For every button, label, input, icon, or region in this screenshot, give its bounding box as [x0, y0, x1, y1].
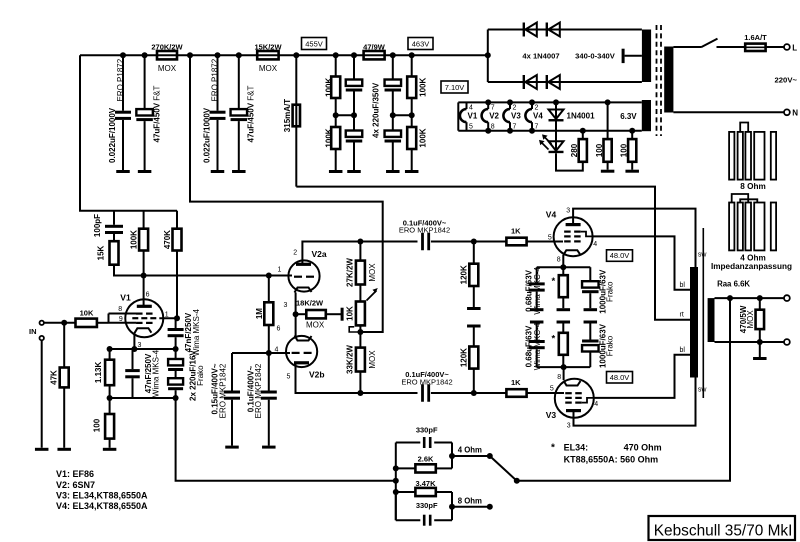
- wire V2b grid: [269, 352, 290, 354]
- node selector pole: [514, 478, 520, 484]
- svg-text:MOX: MOX: [368, 263, 377, 282]
- svg-text:ERO MKP1842: ERO MKP1842: [399, 226, 450, 235]
- resistor 100K (V1 plate load): [143, 211, 145, 229]
- svg-text:V3: V3: [546, 410, 557, 420]
- resistor * cathode (V3): [559, 333, 568, 355]
- wire 8 Ohm tap to contact: [452, 506, 490, 508]
- wire feedback return from V1 cathode: [176, 398, 396, 481]
- resistor 280: [582, 131, 584, 139]
- svg-text:100pF: 100pF: [93, 214, 102, 237]
- node 470 ohm bottom: [757, 339, 763, 345]
- svg-text:Raa 6.6K: Raa 6.6K: [717, 279, 750, 288]
- svg-text:3.47K: 3.47K: [415, 479, 436, 488]
- ground (100 lower): [631, 162, 633, 170]
- wire V4 cathode lead: [562, 255, 564, 267]
- svg-text:rt: rt: [680, 312, 684, 319]
- diode D4 1N4007 (bottom right): [546, 75, 548, 89]
- wire B+ feed to V2 stage: [190, 55, 383, 332]
- node V1 anode: [141, 273, 147, 279]
- node pot/33K junction (B+ feed): [357, 329, 363, 335]
- wire V4 screen to OPT (bl top): [592, 236, 690, 289]
- resistor 100 (heater balance upper): [607, 102, 609, 139]
- resistor 100K (bank B lower): [407, 127, 416, 149]
- resistor 470K (V1 screen feed): [176, 211, 178, 229]
- wire V2a anode: [302, 242, 360, 265]
- LED pilot lamp: [555, 141, 557, 152]
- svg-text:3: 3: [566, 207, 570, 214]
- capacitor 0.68uF/63V Wima MKC-4 (V4): [536, 267, 538, 282]
- svg-text:48.0V: 48.0V: [610, 373, 630, 382]
- resistor 1M (V2b grid leak): [268, 276, 270, 303]
- capacitor 47uF/450V F&T (second): [238, 55, 240, 109]
- ground (first 0.022uF): [116, 170, 130, 173]
- transformer 6.3V heater winding: [642, 100, 651, 131]
- tube V2a 6SN7 (triode 1): [288, 260, 319, 291]
- svg-text:MOX: MOX: [158, 64, 177, 73]
- node rail junction x392: [390, 52, 396, 58]
- svg-text:1K: 1K: [511, 227, 521, 236]
- svg-text:18K/2W: 18K/2W: [296, 298, 324, 307]
- svg-text:Frako: Frako: [605, 335, 614, 356]
- svg-text:47/9W: 47/9W: [363, 42, 386, 51]
- svg-text:5: 5: [548, 235, 552, 242]
- wire secondary bottom: [715, 341, 784, 343]
- svg-text:MOX: MOX: [259, 64, 278, 73]
- wire V1 cathode rail: [110, 348, 176, 350]
- resistor 120K (V3 grid leak): [469, 347, 478, 369]
- wire 10K to V1 grid: [98, 322, 109, 324]
- svg-text:6.3V: 6.3V: [620, 112, 637, 121]
- svg-text:100K: 100K: [419, 78, 428, 97]
- svg-text:*: *: [552, 276, 556, 287]
- tube V3 heater (pins 2,7): [509, 102, 511, 109]
- wire V3 screen to OPT (bl bottom): [593, 355, 690, 398]
- svg-text:100: 100: [620, 143, 629, 157]
- node 120K lower: [471, 390, 477, 396]
- svg-text:6: 6: [277, 325, 281, 332]
- svg-text:V2: 6SN7: V2: 6SN7: [56, 480, 95, 490]
- ground (0.68uF V4): [530, 308, 544, 311]
- svg-text:V1: V1: [120, 292, 131, 302]
- fuse 315mA/T: [295, 55, 297, 186]
- svg-text:330pF: 330pF: [416, 501, 438, 510]
- svg-text:15K: 15K: [96, 245, 105, 260]
- svg-text:4 Ohm: 4 Ohm: [458, 446, 482, 455]
- capacitor 220uF/350V (bank B lower): [385, 131, 402, 137]
- resistor 100 (V1 cathode to ground): [105, 414, 114, 439]
- svg-text:3: 3: [284, 302, 288, 309]
- node rail junction x238: [236, 52, 242, 58]
- wire IN bottom to ground: [41, 341, 43, 448]
- node rail junction x123: [120, 52, 126, 58]
- fuse 1.6A/T: [745, 44, 765, 51]
- wire bank B mid tie: [393, 114, 412, 116]
- wire V1 cathode bottom rail: [110, 397, 176, 399]
- wire V1 cathode lead: [133, 333, 135, 349]
- wire feedback from secondary to selector: [517, 298, 730, 481]
- wire V1 anode to V2a grid: [144, 275, 292, 277]
- svg-text:Frako: Frako: [196, 365, 205, 386]
- diode D3 1N4007 (bottom left): [488, 81, 642, 83]
- svg-text:100K: 100K: [324, 78, 333, 97]
- wire V3 cathode rail: [537, 366, 591, 368]
- svg-text:*: *: [552, 334, 556, 345]
- svg-text:L: L: [792, 43, 797, 52]
- wire V4 cathode rail: [537, 266, 591, 268]
- diode D2 1N4007 (top right): [546, 23, 548, 37]
- svg-text:270K/2W: 270K/2W: [151, 42, 183, 51]
- resistor 1K (V4 grid stopper): [506, 238, 526, 246]
- resistor 100K (bank A lower): [331, 127, 340, 149]
- svg-text:*: *: [551, 443, 555, 454]
- svg-text:1M: 1M: [255, 308, 264, 319]
- wire 8 Ohm loop right: [451, 492, 453, 520]
- svg-text:MOX: MOX: [746, 310, 755, 329]
- svg-text:315mA/T: 315mA/T: [283, 99, 292, 132]
- wire V2a anode run to coupling cap: [360, 241, 417, 243]
- ground (18K, bar style): [341, 308, 344, 321]
- ground (bank A cap chain): [347, 170, 361, 173]
- tube V1 heater (pins 4,5): [466, 102, 468, 109]
- wire V2b plate lead: [296, 363, 361, 393]
- wire 8 Ohm loop left: [395, 492, 397, 520]
- resistor * cathode (V4): [562, 267, 564, 275]
- svg-text:47uF/450V F&T: 47uF/450V F&T: [246, 85, 255, 142]
- svg-text:IN: IN: [29, 327, 37, 336]
- svg-text:3: 3: [138, 342, 142, 349]
- node V2 cathode junction: [293, 311, 299, 317]
- wire input to 10K: [44, 322, 75, 324]
- svg-text:5: 5: [287, 374, 291, 381]
- capacitor 0.1uF/400V~ ERO MKP1842 (grid bypass): [268, 353, 270, 391]
- wire heater top line: [458, 101, 642, 103]
- label 7.10V: [441, 81, 468, 93]
- svg-text:10K: 10K: [80, 308, 94, 317]
- svg-text:V2b: V2b: [309, 369, 325, 379]
- wire switch to fuse: [717, 46, 745, 48]
- ground (bank B resistor chain): [405, 170, 419, 173]
- wire bank A mid tie: [336, 114, 354, 116]
- svg-text:bl: bl: [680, 282, 686, 289]
- svg-text:V3: EL34,KT88,6550A: V3: EL34,KT88,6550A: [56, 490, 148, 500]
- ground (secondary): [759, 342, 761, 357]
- resistor 470/5W MOX (secondary load): [759, 298, 761, 310]
- capacitor 0.1uF/400V~ ERO MKP1842 (upper coupling): [421, 233, 424, 251]
- svg-text:8: 8: [118, 306, 122, 313]
- svg-text:0.022uF/1000V: 0.022uF/1000V: [108, 107, 117, 163]
- node V2b grid junction: [266, 350, 272, 356]
- wire B+ rail: [80, 54, 488, 56]
- resistor 2.6K (feedback 4 Ohm): [396, 467, 415, 469]
- svg-text:Wima MKC-4: Wima MKC-4: [533, 322, 542, 370]
- wire V2a cathode lead: [295, 293, 297, 315]
- svg-text:4x 220uF/350V: 4x 220uF/350V: [372, 82, 381, 138]
- svg-text:V4: V4: [546, 209, 557, 219]
- label 455V: [302, 38, 327, 50]
- diode D1 1N4007 (top left): [488, 29, 642, 31]
- wire bridge box left edge: [487, 30, 489, 83]
- ground (1000uF V4): [584, 308, 598, 311]
- wire V3 anode to OPT (sw bottom): [574, 378, 696, 426]
- svg-text:100K: 100K: [129, 230, 138, 249]
- svg-text:280: 280: [570, 143, 579, 157]
- svg-text:KT88,6550A: 560 Ohm: KT88,6550A: 560 Ohm: [564, 455, 659, 465]
- svg-text:8: 8: [557, 374, 561, 381]
- node bridge output: [485, 52, 491, 58]
- ground (100 upper): [607, 162, 609, 170]
- svg-text:455V: 455V: [305, 39, 323, 48]
- resistor 100K (bank A upper): [335, 55, 337, 76]
- tube V2b 6SN7 (triode 2): [286, 336, 317, 367]
- resistor 47/9W: [364, 51, 385, 59]
- wire V2b cathode lead: [295, 314, 297, 337]
- resistor 1.13K (V1 cathode): [109, 349, 111, 360]
- svg-text:4x 1N4007: 4x 1N4007: [522, 52, 559, 61]
- node V4 cathode: [560, 264, 566, 270]
- ground (120K lower, bar style): [467, 325, 481, 328]
- svg-text:8 Ohm: 8 Ohm: [740, 182, 765, 191]
- svg-text:4: 4: [594, 401, 598, 408]
- switch mains: [701, 39, 718, 48]
- svg-text:Impedanzanpassung: Impedanzanpassung: [711, 262, 792, 271]
- node secondary feedback tap: [727, 295, 733, 301]
- wire 1K to V3 grid: [527, 392, 564, 394]
- svg-text:100: 100: [595, 143, 604, 157]
- svg-text:N: N: [792, 109, 798, 118]
- ground (1000uF V3, bar above): [584, 321, 598, 324]
- svg-text:1N4001: 1N4001: [567, 112, 596, 121]
- ground (bank B cap chain): [386, 170, 400, 173]
- label 48.0V lower: [607, 372, 633, 384]
- tube V1 EF86: [125, 299, 163, 337]
- svg-text:8: 8: [491, 124, 495, 131]
- svg-text:47uF/450V F&T: 47uF/450V F&T: [152, 85, 161, 142]
- wire fuse to terminal L: [766, 46, 784, 48]
- svg-text:V1: V1: [468, 111, 478, 120]
- svg-text:8 Ohm: 8 Ohm: [458, 496, 482, 505]
- terminal output bottom: [784, 339, 790, 345]
- wire V1 anode lead: [143, 276, 145, 307]
- svg-text:120K: 120K: [460, 265, 469, 284]
- terminal IN top: [40, 321, 44, 325]
- node 27K top: [357, 239, 363, 245]
- resistor 47K (input load): [63, 323, 65, 368]
- label 463V: [408, 38, 433, 50]
- svg-text:100K: 100K: [324, 128, 333, 147]
- capacitor 330pF (4 Ohm loop): [396, 442, 421, 444]
- svg-text:1: 1: [165, 312, 169, 319]
- capacitor 220uF/350V (bank A lower): [346, 131, 363, 137]
- svg-text:V2: V2: [489, 111, 499, 120]
- transformer HV secondary winding 340-0-340V: [642, 30, 651, 83]
- terminal L: [784, 44, 790, 50]
- svg-text:Frako: Frako: [605, 281, 614, 302]
- terminal IN bottom: [40, 336, 44, 340]
- ground (0.68uF V3, bar above): [530, 321, 544, 324]
- node rail junction x190 (V2 supply): [187, 52, 193, 58]
- ground (47K): [57, 448, 70, 451]
- capacitor 1000uF/63V Frako (V3): [582, 340, 599, 343]
- tube V4 EL34/KT88: [554, 217, 593, 256]
- ground (bank A resistor chain): [329, 170, 343, 173]
- resistor 18K/2W MOX (common cathode): [296, 313, 306, 315]
- svg-text:7.10V: 7.10V: [445, 83, 465, 92]
- wire V2b plate run to coupling cap: [360, 392, 417, 394]
- label 48.0V upper: [607, 250, 633, 261]
- node rail junction x335: [333, 52, 339, 58]
- svg-text:120K: 120K: [460, 348, 469, 367]
- svg-text:7: 7: [535, 124, 539, 131]
- transformer OPT primary winding Raa 6.6K: [690, 267, 698, 378]
- svg-text:463V: 463V: [412, 39, 430, 48]
- transformer core lamination (dashed): [656, 25, 658, 136]
- svg-text:100K: 100K: [419, 128, 428, 147]
- wire primary top to switch: [673, 46, 701, 48]
- svg-text:5: 5: [550, 386, 554, 393]
- svg-text:0.022uF/1000V: 0.022uF/1000V: [203, 107, 212, 163]
- connector speaker 8 Ohm: [729, 132, 734, 180]
- svg-text:9: 9: [119, 316, 123, 323]
- HV center tap: [622, 49, 625, 63]
- wire secondary top: [715, 297, 784, 299]
- resistor 10K (grid stopper V1): [76, 319, 97, 327]
- svg-text:470K: 470K: [163, 230, 172, 249]
- ground (100 V1): [103, 448, 117, 451]
- svg-text:8: 8: [557, 257, 561, 264]
- diode 1N4001: [555, 102, 557, 141]
- svg-text:10K: 10K: [346, 306, 355, 321]
- tube V2 heater (pins 7,8): [487, 102, 489, 109]
- resistor 100 (heater balance lower): [631, 131, 633, 139]
- potentiometer 10K (balance): [356, 302, 365, 326]
- wire V4 anode to OPT (sw top): [573, 209, 695, 267]
- resistor 120K (V4 grid leak): [473, 242, 475, 264]
- connector speaker 4 Ohm: [729, 203, 734, 251]
- capacitor 47nF/250V Wima MKS-4 (cathode bypass): [132, 349, 134, 369]
- svg-text:V3: V3: [511, 111, 521, 120]
- node 4 Ohm tap: [449, 453, 455, 459]
- svg-text:27K/2W: 27K/2W: [346, 258, 355, 287]
- capacitor 0.1uF/400V~ ERO MKP1842 (lower coupling): [421, 384, 424, 402]
- wire heater bottom line: [458, 130, 642, 132]
- svg-text:MOX: MOX: [368, 350, 377, 369]
- svg-text:Wima MKC-4: Wima MKC-4: [533, 267, 542, 315]
- svg-text:ERO P1872: ERO P1872: [116, 58, 125, 101]
- svg-text:48.0V: 48.0V: [610, 251, 630, 260]
- ground (0.15uF): [225, 446, 239, 449]
- switch feedback selector: [490, 456, 517, 481]
- svg-text:100: 100: [92, 418, 101, 432]
- svg-text:V2a: V2a: [312, 249, 327, 259]
- svg-text:2.6K: 2.6K: [418, 455, 434, 464]
- svg-text:47K: 47K: [50, 370, 59, 385]
- transformer OPT secondary winding: [708, 298, 715, 342]
- svg-text:Wima MKS-4: Wima MKS-4: [192, 308, 201, 356]
- svg-text:220V~: 220V~: [775, 76, 798, 85]
- svg-text:bl: bl: [680, 347, 686, 354]
- node rail junction x411: [409, 52, 415, 58]
- wire feedback left rail: [395, 443, 397, 521]
- capacitor 2x 220uF/16V Frako (series pair): [175, 349, 177, 359]
- resistor 27K/2W MOX (V2a plate load): [359, 242, 361, 261]
- svg-text:1.6A/T: 1.6A/T: [744, 33, 767, 42]
- capacitor 47uF/450V F&T (first): [144, 55, 146, 109]
- svg-text:V4: EL34,KT88,6550A: V4: EL34,KT88,6550A: [56, 501, 148, 511]
- node input/47K junction: [61, 320, 67, 326]
- svg-text:V4: V4: [533, 111, 543, 120]
- svg-text:4: 4: [593, 241, 597, 248]
- resistor 33K/2W MOX (V2b plate load): [359, 332, 361, 348]
- wire 4 Ohm tap to contact: [452, 455, 490, 457]
- svg-text:15K/2W: 15K/2W: [254, 42, 282, 51]
- wire 1K to V4 grid: [527, 241, 563, 243]
- capacitor 0.15uF/400V~ ERO MKP1842: [231, 353, 233, 391]
- node 120K upper: [471, 239, 477, 245]
- wire 4 Ohm loop right: [451, 443, 453, 469]
- ground (0.1uF grid): [262, 446, 276, 449]
- title box Kebschull 35/70 MkI: [649, 516, 796, 540]
- svg-text:1: 1: [278, 267, 282, 274]
- svg-text:2: 2: [293, 249, 297, 256]
- svg-text:1.13K: 1.13K: [94, 362, 103, 384]
- svg-text:V1: EF86: V1: EF86: [56, 469, 94, 479]
- transformer OPT core line: [702, 228, 704, 398]
- ground (first 47uF): [138, 170, 152, 173]
- svg-text:340-0-340V: 340-0-340V: [575, 52, 616, 61]
- svg-text:Wima MKS-4: Wima MKS-4: [152, 349, 161, 397]
- resistor 270K/2W MOX: [157, 51, 177, 59]
- node 33K bottom: [357, 390, 363, 396]
- node rail junction x354: [351, 52, 357, 58]
- resistor 1K (V3 grid stopper): [506, 389, 526, 397]
- ground (120K upper, bar style): [473, 286, 475, 307]
- svg-text:MOX: MOX: [306, 321, 325, 330]
- capacitor 47nF/250V Wima MKS-4 (screen bypass): [176, 317, 177, 319]
- capacitor 1000uF/63V Frako (V4): [589, 267, 591, 281]
- capacitor 220uF/350V (bank A upper): [353, 55, 355, 79]
- ground (cathode R V3, bar above): [557, 321, 571, 324]
- svg-text:7: 7: [513, 124, 517, 131]
- wire primary bottom to terminal N: [673, 111, 783, 113]
- svg-text:ERO P1872: ERO P1872: [210, 58, 219, 101]
- svg-text:6: 6: [146, 292, 150, 299]
- wire to V4 grid circuit: [474, 241, 506, 243]
- ground (cathode R V4): [557, 308, 571, 311]
- node rail junction fuse tap: [293, 52, 299, 58]
- resistor 3.47K (feedback 8 Ohm): [396, 491, 415, 493]
- svg-text:Kebschull 35/70 MkI: Kebschull 35/70 MkI: [654, 522, 793, 539]
- wire heater left edge: [457, 102, 459, 130]
- wire to V3 grid circuit: [474, 392, 506, 394]
- capacitor 0.68uF/63V Wima MKC-4 (V3): [529, 340, 545, 343]
- capacitor 0.022uF/1000V ERO P1872 (second): [217, 55, 219, 110]
- tube V3 EL34/KT88: [555, 379, 594, 418]
- wire V3 cathode lead: [563, 367, 565, 380]
- contact 8 Ohm: [487, 504, 493, 510]
- resistor 15K/2W MOX: [257, 51, 278, 59]
- ground (second 0.022uF): [211, 170, 225, 173]
- capacitor 100pF + resistor 15K branch: [113, 211, 115, 225]
- svg-text:ERO MKP1842: ERO MKP1842: [218, 363, 227, 418]
- node rail junction x144: [142, 52, 148, 58]
- node V3 cathode: [561, 364, 567, 370]
- svg-text:5: 5: [469, 124, 473, 131]
- wire V1 screen to node: [159, 317, 177, 319]
- wire 18K to ground bar: [326, 313, 341, 315]
- transformer 220V primary winding: [664, 47, 673, 113]
- node rail junction x217: [215, 52, 221, 58]
- node 470 ohm top: [757, 295, 763, 301]
